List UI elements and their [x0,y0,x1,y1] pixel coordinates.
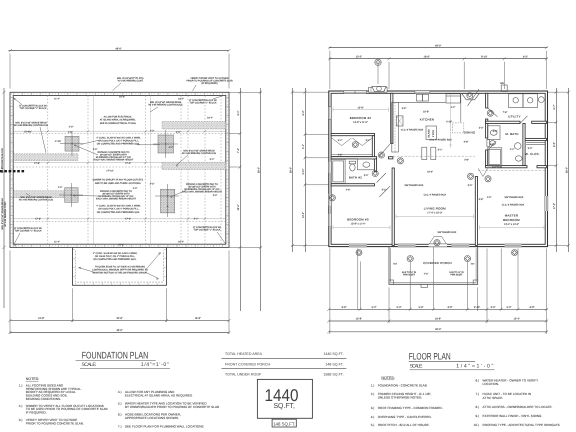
svg-text:5'-6": 5'-6" [419,306,424,309]
svg-text:15'-6¾": 15'-6¾" [24,130,32,133]
svg-text:16'-4": 16'-4" [178,241,184,244]
svg-text:WB: WB [500,82,504,85]
svg-text:BATH #2: BATH #2 [349,176,362,180]
svg-text:5'-4": 5'-4" [194,218,199,221]
svg-text:148 SQ.FT.: 148 SQ.FT. [325,362,343,366]
svg-text:3'-0": 3'-0" [491,306,496,309]
svg-text:3.): 3.) [19,418,23,422]
svg-text:4'-0": 4'-0" [58,186,63,189]
svg-text:13'-8": 13'-8" [195,317,201,320]
svg-text:17'-8": 17'-8" [35,218,41,221]
svg-text:7'-8": 7'-8" [503,111,508,114]
svg-text:5'-1": 5'-1" [302,144,305,149]
svg-text:5'-2": 5'-2" [382,189,387,192]
svg-text:13'-3": 13'-3" [302,212,305,218]
svg-text:48'-0": 48'-0" [115,47,121,50]
svg-text:10'-4": 10'-4" [207,117,213,120]
svg-text:ISLAND: ISLAND [427,129,430,138]
svg-text:DINING: DINING [464,130,476,134]
svg-text:TOP COURSE "L" BLOCK: TOP COURSE "L" BLOCK [193,229,221,232]
svg-text:5/8" RAISED BOX: 5/8" RAISED BOX [438,231,457,234]
svg-text:3'-10": 3'-10" [474,306,480,309]
svg-text:ON 10x10 POLY, ON 4" POROUS FI: ON 10x10 POLY, ON 4" POROUS FILL, [98,208,139,211]
svg-text:5.): 5.) [118,401,122,405]
svg-text:EXTERIOR WALL FINISH - VINYL S: EXTERIOR WALL FINISH - VINYL SIDING [483,414,543,418]
svg-text:4" CONC. SLAB W/ 6x6 W1.4xW1.4: 4" CONC. SLAB W/ 6x6 W1.4xW1.4 WWM, [96,205,141,208]
svg-text:2'-0": 2'-0" [150,183,155,186]
svg-text:BEDROOM #2: BEDROOM #2 [350,116,372,120]
svg-text:4'-10": 4'-10" [446,121,452,124]
svg-text:2'-8": 2'-8" [338,153,343,156]
svg-text:EACH WAY, MIN/MID REBAR HEIGHT: EACH WAY, MIN/MID REBAR HEIGHT [182,190,222,193]
svg-text:ROOF FRAMING TYPE - COMMON FRA: ROOF FRAMING TYPE - COMMON FRAMED. [378,406,443,410]
svg-text:UTILITY: UTILITY [508,115,521,119]
svg-text:5'-0": 5'-0" [468,184,473,187]
svg-text:5'-8": 5'-8" [479,198,484,201]
svg-text:ATTIC ACCESS - OWNER/BUILDER T: ATTIC ACCESS - OWNER/BUILDER TO LOCATE. [483,405,553,409]
svg-text:9' BOX: 9' BOX [432,129,435,137]
svg-text:2'-0": 2'-0" [69,126,74,129]
svg-text:W. CLOS.: W. CLOS. [525,152,540,156]
svg-text:10'-0": 10'-0" [427,171,433,174]
svg-text:4" CONC. SLAB W/ 6x6 W1.4xW1.4: 4" CONC. SLAB W/ 6x6 W1.4xW1.4 WWM, [96,136,141,139]
svg-text:3'-0": 3'-0" [213,194,218,197]
svg-text:EACH WAY, MIN/MID REBAR HEIGHT: EACH WAY, MIN/MID REBAR HEIGHT [94,159,134,162]
svg-text:4'-4¾": 4'-4¾" [55,140,62,143]
svg-text:W/ 2-#5 REBARS CONTINUOUS: W/ 2-#5 REBARS CONTINUOUS [148,104,183,107]
svg-text:CLG. 9' RAISED BOX: CLG. 9' RAISED BOX [429,139,452,142]
svg-text:2'-0": 2'-0" [93,148,98,151]
svg-text:TOP COURSE "L" BLOCK: TOP COURSE "L" BLOCK [14,230,42,233]
svg-text:4'-4": 4'-4" [510,148,515,151]
svg-text:LIVING ROOM: LIVING ROOM [424,207,446,211]
svg-text:COVERED PORCH: COVERED PORCH [423,261,452,265]
svg-text:THICKEN EDGE TO 10" WIDE w/ 2-: THICKEN EDGE TO 10" WIDE w/ 2-#5 REBARS [95,265,145,268]
svg-text:4" CONC. SLAB W/ 6x6 W1.4xW1.4: 4" CONC. SLAB W/ 6x6 W1.4xW1.4 WWM, [93,252,138,255]
svg-text:FOUNDATION PLAN: FOUNDATION PLAN [82,350,149,361]
svg-text:PER INSET: PER INSET [450,274,463,277]
svg-text:48'-0": 48'-0" [435,328,441,331]
svg-text:SEE FLOOR PLAN FOR PLUMBING WA: SEE FLOOR PLAN FOR PLUMBING WALL LOCATIO… [125,424,204,428]
svg-text:13'-8": 13'-8" [38,317,44,320]
svg-text:48'-0": 48'-0" [116,329,122,332]
svg-text:4.): 4.) [371,415,375,419]
svg-text:7.): 7.) [118,424,122,428]
svg-text:16'-0": 16'-0" [119,96,125,99]
svg-text:EACH WAY, MIN/MID REBAR HEIGHT: EACH WAY, MIN/MID REBAR HEIGHT [96,198,136,201]
svg-text:15'-4": 15'-4" [514,317,520,320]
svg-text:2.): 2.) [371,392,375,396]
svg-text:ON COMPACTED AND PREPARED SOIL: ON COMPACTED AND PREPARED SOIL. [97,143,141,146]
svg-text:16'-4": 16'-4" [237,204,240,210]
svg-text:5'-2": 5'-2" [372,306,377,309]
svg-text:CONTINUOUS, MINIMUM DEPTH BE R: CONTINUOUS, MINIMUM DEPTH BE REQUIRED TO [92,268,148,271]
svg-text:8.): 8.) [476,405,480,409]
svg-text:7'-4": 7'-4" [237,148,240,153]
svg-text:5'-0": 5'-0" [507,306,512,309]
svg-text:6'-8": 6'-8" [530,306,535,309]
svg-text:6'-8": 6'-8" [464,141,469,144]
svg-text:ON COMPACTED AND PREPARED SOIL: ON COMPACTED AND PREPARED SOIL. [97,211,141,214]
svg-text:28'-0": 28'-0" [566,167,569,173]
svg-text:1/4"=1'-0": 1/4"=1'-0" [141,362,169,368]
svg-text:4'-4": 4'-4" [169,146,174,149]
svg-text:13'-8": 13'-8" [357,106,363,109]
svg-text:OVERHANG TYPE - CANTILEVERED.: OVERHANG TYPE - CANTILEVERED. [378,415,432,419]
svg-text:2'-8": 2'-8" [490,143,495,146]
svg-text:11'-4": 11'-4" [54,98,60,101]
svg-text:BEARING CONDITIONS.: BEARING CONDITIONS. [26,397,61,401]
svg-text:48'-0": 48'-0" [435,45,441,48]
svg-text:4.): 4.) [118,390,122,394]
svg-text:16'-6": 16'-6" [423,56,429,59]
svg-text:PRIOR TO POURING CONCRETE SLAB: PRIOR TO POURING CONCRETE SLAB. [26,421,84,425]
svg-text:15'-8": 15'-8" [356,317,362,320]
svg-text:APPROPRIATE LOCATIONS SHOWN.: APPROPRIATE LOCATIONS SHOWN. [125,416,179,420]
svg-text:ATTIC SPACE.: ATTIC SPACE. [483,396,504,400]
svg-text:6'-4": 6'-4" [338,139,343,142]
svg-text:28'-0": 28'-0" [258,167,261,173]
svg-text:16'-0": 16'-0" [118,244,124,247]
svg-text:148 SQ.FT.: 148 SQ.FT. [273,421,295,426]
svg-text:9'-2": 9'-2" [553,142,556,147]
svg-text:ALLOW FOR ELECTRICAL: ALLOW FOR ELECTRICAL [104,115,133,118]
svg-text:4'-0": 4'-0" [487,196,492,199]
svg-text:ELECTRICAL AT ISLAND AREA, AS: ELECTRICAL AT ISLAND AREA, AS REQUIRED [125,394,193,398]
svg-text:4'-0": 4'-0" [424,273,429,276]
svg-text:TOP COURSE "L" BLOCK: TOP COURSE "L" BLOCK [19,107,47,110]
svg-text:17'-2": 17'-2" [553,203,556,209]
svg-text:5'-11": 5'-11" [302,168,305,174]
svg-text:3'-0": 3'-0" [364,174,369,177]
svg-text:17'-0": 17'-0" [125,218,131,221]
svg-text:28'-0": 28'-0" [1,167,4,173]
svg-text:7.): 7.) [476,392,480,396]
svg-text:FLOOR PLAN: FLOOR PLAN [409,350,451,361]
svg-text:6.): 6.) [476,378,480,382]
svg-text:10'-8": 10'-8" [423,111,429,114]
svg-text:5'-4": 5'-4" [210,158,215,161]
svg-text:6.): 6.) [118,413,122,417]
svg-text:ROOF PITCH - 6/12 ALL OF HOUSE: ROOF PITCH - 6/12 ALL OF HOUSE. [378,423,430,427]
svg-text:13'-8" x 11'-4": 13'-8" x 11'-4" [351,223,366,226]
svg-text:6'-8": 6'-8" [342,306,347,309]
svg-text:5'-0": 5'-0" [528,147,533,150]
svg-text:SQ.FT,: SQ.FT, [273,401,295,410]
svg-text:9'-3": 9'-3" [523,56,528,59]
svg-text:IF REQUIRED.: IF REQUIRED. [26,411,47,415]
svg-text:W/ 2-#5 REBARS CONT.: W/ 2-#5 REBARS CONT. [118,80,144,83]
svg-text:2'-0": 2'-0" [176,131,181,134]
svg-text:ON 10x10 POLY, ON 4" POROUS FI: ON 10x10 POLY, ON 4" POROUS FILL, [98,139,139,142]
svg-text:6'-8": 6'-8" [448,306,453,309]
svg-text:ARE TO BE USED AND THEIR LOCAT: ARE TO BE USED AND THEIR LOCATIONS [95,182,141,185]
svg-text:W/ 2-#5 REBARS CONTINUOUS: W/ 2-#5 REBARS CONTINUOUS [14,124,49,127]
svg-text:W/ 2-#5 REBARS CONT.: W/ 2-#5 REBARS CONT. [4,201,7,227]
svg-text:8'-10": 8'-10" [481,56,487,59]
svg-text:1588 SQ.FT.: 1588 SQ.FT. [323,372,343,376]
svg-text:3.): 3.) [371,406,375,410]
svg-text:ROOFING TYPE - ARCHITECTURAL T: ROOFING TYPE - ARCHITECTURAL TYPE SHINGL… [483,423,560,427]
svg-text:28'-0": 28'-0" [289,167,292,173]
svg-text:CLG. 9' RAISED BOX: CLG. 9' RAISED BOX [424,193,447,196]
svg-text:TOTAL UNDER ROOF: TOTAL UNDER ROOF [225,372,262,376]
svg-text:W/ 2-#5 REBARS CONTINUOUS: W/ 2-#5 REBARS CONTINUOUS [182,152,217,155]
svg-text:5.): 5.) [371,423,375,427]
svg-text:5'-4": 5'-4" [438,149,443,152]
svg-text:BEDROOM #3: BEDROOM #3 [347,218,369,222]
svg-text:9.): 9.) [476,414,480,418]
svg-text:FOUNDATION - CONCRETE SLAB: FOUNDATION - CONCRETE SLAB [378,384,427,388]
svg-text:5'-0": 5'-0" [397,306,402,309]
svg-text:AT ISLAND AREA, AS REQUIRED,: AT ISLAND AREA, AS REQUIRED, [100,119,136,122]
svg-text:5/8" RAISED BOX: 5/8" RAISED BOX [405,184,424,187]
svg-text:M. BATH: M. BATH [505,132,518,136]
svg-text:3'-0": 3'-0" [479,127,484,130]
svg-text:17'-8": 17'-8" [34,162,40,165]
svg-text:16'-4": 16'-4" [178,98,184,101]
svg-text:BEDROOM: BEDROOM [503,218,520,222]
svg-text:3'-6": 3'-6" [402,107,407,110]
svg-text:W/ 2-#5 REBARS CONTINUOUS: W/ 2-#5 REBARS CONTINUOUS [19,198,54,201]
svg-text:TOP COURSE "L" BLOCK: TOP COURSE "L" BLOCK [189,102,217,105]
svg-text:1.): 1.) [19,384,23,388]
svg-text:UNLESS OTHERWISE NOTED.: UNLESS OTHERWISE NOTED. [378,396,423,400]
svg-text:13'-2": 13'-2" [356,56,362,59]
svg-text:NOTES:: NOTES: [26,377,39,381]
svg-text:2'-8": 2'-8" [464,159,469,162]
svg-text:ON COMPACTED AND PREPARED SOIL: ON COMPACTED AND PREPARED SOIL. [93,258,137,261]
svg-text:SEE FLOOR/ELECTRICAL PLANS: SEE FLOOR/ELECTRICAL PLANS [100,122,137,125]
svg-text:KITCHEN: KITCHEN [420,117,434,121]
svg-text:TOTAL HEATED AREA: TOTAL HEATED AREA [225,352,263,356]
svg-text:17'-4" x 16'-0": 17'-4" x 16'-0" [427,212,442,215]
svg-text:SCALE:: SCALE: [410,363,423,369]
svg-text:9'-1": 9'-1" [237,110,240,115]
svg-text:4'-2": 4'-2" [451,106,456,109]
svg-text:6'-0": 6'-0" [493,130,498,133]
svg-text:(IF REQUIRED): (IF REQUIRED) [201,82,218,85]
svg-text:MAINTAIN BOTTOM 12" BELOW FINI: MAINTAIN BOTTOM 12" BELOW FINISHED GRADE… [93,272,148,275]
svg-text:17'-0": 17'-0" [125,162,131,165]
svg-text:6'-7": 6'-7" [553,104,556,109]
svg-text:LOCATION.: LOCATION. [483,382,500,386]
svg-text:2'-0": 2'-0" [133,187,138,190]
svg-text:SCALE:: SCALE: [82,362,97,368]
svg-text:NOTES:: NOTES: [381,376,394,380]
svg-text:11'-4": 11'-4" [54,241,60,244]
svg-text:10.): 10.) [474,423,479,427]
svg-text:PER INSET: PER INSET [403,274,416,277]
svg-text:FRONT COVERED PORCH: FRONT COVERED PORCH [225,362,270,366]
svg-text:13'-8" x 11'-0": 13'-8" x 11'-0" [353,121,368,124]
svg-text:5/8" RAISED BOX: 5/8" RAISED BOX [505,196,524,199]
svg-text:13'-4" x 14'-0": 13'-4" x 14'-0" [504,223,519,226]
svg-text:6'-0" TUB: 6'-0" TUB [492,166,502,169]
svg-text:ON 10x10 POLY, ON 4" POROUS FI: ON 10x10 POLY, ON 4" POROUS FILL, [95,255,136,258]
svg-text:BY OWNER/BUILDER PRIOR TO POUR: BY OWNER/BUILDER PRIOR TO POURING OF CON… [125,405,219,409]
svg-text:2.): 2.) [19,404,23,408]
svg-text:5'-4": 5'-4" [366,139,371,142]
svg-text:9'-4": 9'-4" [302,110,305,115]
svg-text:4'-6": 4'-6" [346,189,351,192]
svg-text:17'-10": 17'-10" [106,170,113,173]
svg-text:CLG. 9' RAISED BOX: CLG. 9' RAISED BOX [502,203,525,206]
svg-text:CLG. 9' RAISED BOX: CLG. 9' RAISED BOX [401,129,424,132]
svg-text:20'-8": 20'-8" [116,317,122,320]
svg-text:1440 SQ.FT.: 1440 SQ.FT. [323,352,343,356]
svg-text:19'-8": 19'-8" [435,317,441,320]
svg-text:1.): 1.) [371,384,375,388]
svg-text:1'-0": 1'-0" [150,130,155,133]
svg-text:OWNER TO SPECIFY IF ANY FLOOR: OWNER TO SPECIFY IF ANY FLOOR OUTLETS [92,179,143,182]
